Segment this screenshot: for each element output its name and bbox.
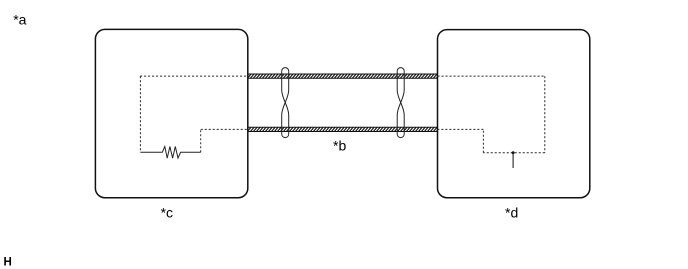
- wire: right box short vertical dashed: [482, 129, 484, 152]
- wire: right box lower-left dashed: [438, 128, 484, 130]
- svg-text:*b: *b: [333, 138, 346, 154]
- node junction dot: [512, 151, 515, 154]
- wire: left box bottom dashed: [201, 128, 248, 130]
- wire: right box bottom horizontal dashed: [483, 152, 544, 154]
- shielded wire W1 (top bar): [248, 74, 438, 78]
- wire: right box right vertical dashed: [544, 76, 546, 153]
- twisted pair symbol T1: [282, 68, 289, 138]
- svg-text:*a: *a: [13, 12, 26, 28]
- box *d (right ECU): [438, 30, 590, 198]
- wire: stub below junction: [512, 153, 514, 168]
- svg-text:*c: *c: [161, 205, 173, 221]
- svg-text:H: H: [4, 256, 12, 268]
- twisted pair symbol T2: [397, 68, 404, 138]
- shielded wire W2 (bottom bar): [248, 127, 438, 131]
- wire: right box top dashed: [438, 75, 545, 77]
- box *c (left ECU): [95, 29, 247, 197]
- wire: left box top dashed: [140, 75, 248, 77]
- wire: left box left vertical dashed: [139, 76, 141, 152]
- resistor R1: [140, 147, 200, 159]
- svg-text:*d: *d: [505, 205, 518, 221]
- wire: left box right vertical dashed: [200, 129, 202, 152]
